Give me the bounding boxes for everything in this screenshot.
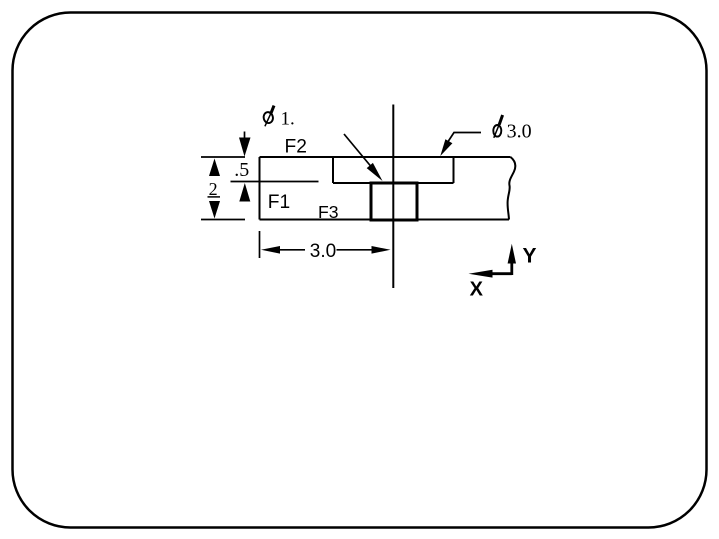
- svg-text:F2: F2: [285, 136, 307, 157]
- svg-text:3.0: 3.0: [310, 241, 336, 262]
- svg-text:.5: .5: [234, 159, 249, 181]
- svg-text:F3: F3: [318, 202, 339, 222]
- svg-text:Y: Y: [523, 244, 537, 267]
- svg-text:X: X: [470, 279, 484, 301]
- svg-text:F1: F1: [268, 192, 290, 213]
- svg-text:3.0: 3.0: [507, 120, 532, 142]
- svg-text:2: 2: [209, 179, 218, 199]
- svg-text:1.: 1.: [281, 108, 295, 129]
